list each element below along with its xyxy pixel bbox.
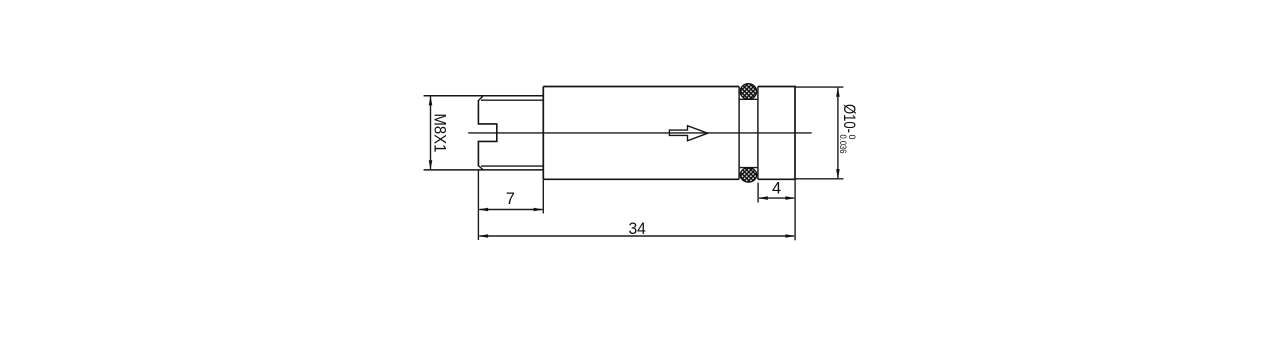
thread crest top line (with M8X1 extension) [424,95,544,97]
extension line flange right (shared 4/34) [794,179,796,240]
Ø10 bottom arrowhead [836,169,840,179]
thread chamfer bottom [478,166,483,170]
Ø10 top arrowhead [836,87,840,97]
centerline [468,132,812,134]
flow direction arrow (hollow) [669,126,707,141]
7 left arrowhead [478,208,488,212]
o-ring groove walls [738,87,740,180]
extension line body left edge (for 7) [542,179,544,213]
Ø10-0.036 text [838,104,859,154]
4 left arrowhead [758,196,768,200]
dimension 34 line [479,235,794,237]
thread root top line [481,99,543,101]
left face with screwdriver slot [478,100,496,166]
svg-text:Ø10-: Ø10- [840,104,859,133]
groove floor bottom [739,167,758,169]
M8X1 top arrowhead [429,96,433,106]
main body rectangle [543,87,739,180]
thread root bottom line [481,165,543,167]
svg-text:4: 4 [772,180,781,198]
svg-text:34: 34 [628,220,646,238]
dimension 7 line [479,209,542,211]
right flange [758,87,795,180]
svg-text:0.036: 0.036 [838,135,848,154]
M8X1 bottom arrowhead [429,160,433,170]
extension line flange left (for 4) [757,183,759,203]
o-ring cross-section bottom [740,168,757,182]
o-ring cross-section top [740,84,756,100]
7 right arrowhead [534,208,544,212]
svg-text:M8X1: M8X1 [430,113,449,152]
34 right arrowhead [785,234,795,238]
dimension 4 line [759,197,794,199]
34 left arrowhead [478,234,488,238]
dimension M8X1: vertical dim line [430,97,432,170]
dimension Ø10 extension lines [795,86,843,88]
Ø10 dim line [837,88,839,178]
4 right arrowhead [785,196,795,200]
thread crest bottom line (with M8X1 extension) [424,169,544,171]
thread chamfer top [478,96,483,101]
groove floor top [739,98,758,100]
extension line left (shared 7/34) [477,170,479,240]
svg-text:7: 7 [506,190,515,208]
